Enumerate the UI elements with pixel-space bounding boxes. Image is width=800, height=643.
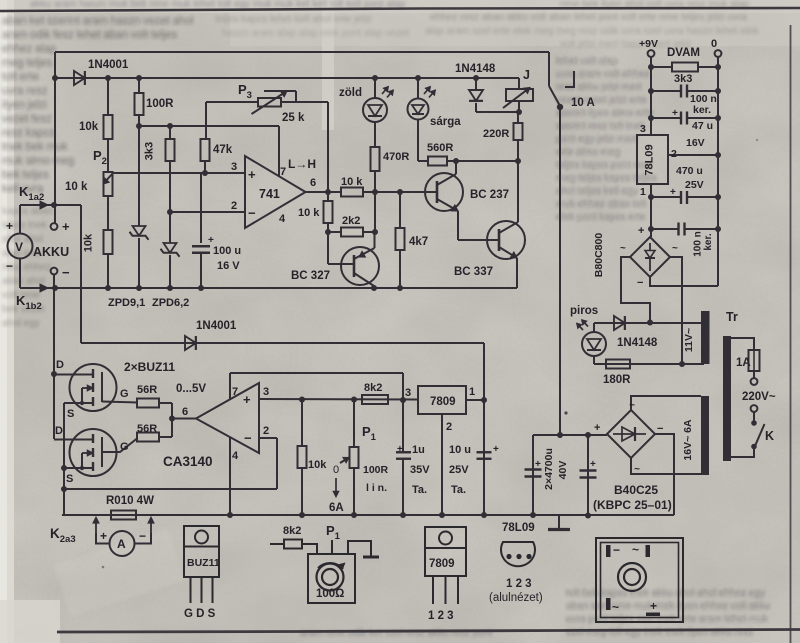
svg-text:+: + <box>248 167 256 182</box>
svg-text:1N4001: 1N4001 <box>196 320 237 332</box>
svg-text:1N4148: 1N4148 <box>455 63 496 75</box>
svg-text:40V: 40V <box>557 461 569 480</box>
svg-text:4: 4 <box>232 450 239 462</box>
svg-text:0: 0 <box>711 38 717 50</box>
svg-text:3: 3 <box>640 123 646 135</box>
svg-text:220V~: 220V~ <box>742 391 776 403</box>
svg-text:8k2: 8k2 <box>364 382 382 394</box>
svg-text:7809: 7809 <box>429 558 455 570</box>
svg-text:2: 2 <box>231 200 237 212</box>
svg-text:+: + <box>535 459 541 470</box>
svg-text:S: S <box>67 408 74 420</box>
svg-text:tolt erte: tolt erte <box>2 71 39 83</box>
svg-text:+: + <box>638 225 644 237</box>
svg-text:2: 2 <box>263 425 269 437</box>
svg-text:BC 327: BC 327 <box>291 270 330 282</box>
svg-text:−: − <box>637 277 643 289</box>
svg-text:−: − <box>6 259 13 273</box>
svg-text:470R: 470R <box>383 151 409 163</box>
svg-text:meg teljes: meg teljes <box>2 57 53 69</box>
svg-text:1: 1 <box>640 186 646 198</box>
svg-text:3k3: 3k3 <box>144 142 156 160</box>
svg-text:7: 7 <box>280 166 286 178</box>
svg-text:220R: 220R <box>483 128 509 140</box>
svg-text:aram odik fesz lehet aban volt: aram odik fesz lehet aban volt teljes <box>2 29 177 41</box>
svg-text:10 k: 10 k <box>298 207 320 219</box>
svg-text:Ta.: Ta. <box>412 484 427 496</box>
svg-text:AKKU: AKKU <box>33 245 69 259</box>
svg-text:+: + <box>672 108 678 119</box>
svg-text:1N4148: 1N4148 <box>617 337 658 349</box>
svg-text:A: A <box>117 537 126 551</box>
svg-text:3: 3 <box>405 387 411 399</box>
svg-text:+9V: +9V <box>639 38 658 50</box>
svg-text:1A: 1A <box>736 357 751 369</box>
svg-text:(alulnézet): (alulnézet) <box>489 592 543 604</box>
svg-text:G: G <box>120 388 129 400</box>
svg-text:2×BUZ11: 2×BUZ11 <box>124 360 175 374</box>
svg-text:uvra aram volt ehhez: uvra aram volt ehhez <box>556 69 649 80</box>
svg-text:180R: 180R <box>603 374 631 386</box>
svg-text:+: + <box>208 235 214 246</box>
svg-text:16 V: 16 V <box>217 260 240 272</box>
svg-text:CA3140: CA3140 <box>163 454 213 469</box>
svg-text:piros: piros <box>570 305 598 317</box>
svg-text:6: 6 <box>182 406 188 418</box>
svg-text:0: 0 <box>333 464 339 476</box>
svg-text:100 n: 100 n <box>693 231 704 257</box>
svg-text:2×4700u: 2×4700u <box>543 448 555 490</box>
svg-text:25V: 25V <box>449 464 469 476</box>
svg-text:erte almo meg: erte almo meg <box>556 147 620 158</box>
svg-text:ahol teljes kell egy: ahol teljes kell egy <box>556 186 638 197</box>
svg-text:1N4001: 1N4001 <box>88 59 129 71</box>
svg-text:R010 4W: R010 4W <box>106 495 154 507</box>
svg-text:(KBPC 25–01): (KBPC 25–01) <box>593 498 672 512</box>
svg-text:elek pont kapcs erte: elek pont kapcs erte <box>556 212 646 223</box>
svg-text:7: 7 <box>232 386 238 398</box>
svg-text:G: G <box>120 441 129 453</box>
svg-text:+: + <box>493 444 499 455</box>
svg-text:bek teljes: bek teljes <box>2 169 49 181</box>
svg-text:16V: 16V <box>686 137 705 149</box>
svg-text:akku ahol: akku ahol <box>2 276 45 287</box>
svg-text:Tr: Tr <box>726 310 738 324</box>
svg-text:ehhez resz aban akku volt aban: ehhez resz aban akku volt aban lehet pon… <box>430 12 747 23</box>
svg-text:ker.: ker. <box>703 233 714 250</box>
svg-text:B40C25: B40C25 <box>614 483 658 497</box>
svg-text:~: ~ <box>629 400 635 411</box>
svg-text:−: − <box>613 543 620 557</box>
svg-text:−: − <box>62 265 70 280</box>
svg-text:teljes kapcs lehet kell ahol e: teljes kapcs lehet kell ahol erte jelzi <box>215 14 371 25</box>
svg-text:56R: 56R <box>137 423 157 435</box>
svg-text:muk almo meg: muk almo meg <box>2 155 74 167</box>
svg-text:+: + <box>243 392 251 407</box>
svg-text:3: 3 <box>263 386 269 398</box>
svg-text:−: − <box>139 529 146 543</box>
svg-text:1 2 3: 1 2 3 <box>428 610 454 622</box>
svg-text:2k2: 2k2 <box>342 215 360 227</box>
svg-text:~: ~ <box>632 543 639 557</box>
svg-text:1 2 3: 1 2 3 <box>506 578 532 590</box>
svg-text:ZPD9,1: ZPD9,1 <box>108 297 145 309</box>
svg-text:−: − <box>657 423 663 435</box>
svg-text:BUZ11: BUZ11 <box>187 557 220 569</box>
svg-text:muk ehhez aban tolt: muk ehhez aban tolt <box>556 199 646 210</box>
svg-text:25V: 25V <box>685 179 704 191</box>
svg-text:100R: 100R <box>363 464 389 476</box>
svg-text:560R: 560R <box>427 142 453 154</box>
svg-text:tnek bek muk: tnek bek muk <box>2 141 68 153</box>
svg-text:1u: 1u <box>412 444 425 456</box>
svg-text:25 k: 25 k <box>282 112 305 124</box>
svg-text:+: + <box>594 422 600 434</box>
svg-text:3k3: 3k3 <box>674 73 692 85</box>
svg-text:35V: 35V <box>410 464 430 476</box>
svg-text:ehhez alap: ehhez alap <box>2 43 56 55</box>
svg-text:10k: 10k <box>83 233 95 252</box>
svg-text:resz kapcs: resz kapcs <box>2 127 55 139</box>
svg-text:11V~: 11V~ <box>683 328 695 352</box>
svg-text:47k: 47k <box>213 144 233 156</box>
svg-text:uvra resz: uvra resz <box>2 85 47 97</box>
svg-text:meg teljes kapcs teljes: meg teljes kapcs teljes <box>556 173 657 184</box>
svg-text:alap aram szel erte elek meg m: alap aram szel erte elek meg meg resz od… <box>425 26 759 37</box>
svg-text:BC 237: BC 237 <box>470 189 509 201</box>
svg-text:78L09: 78L09 <box>502 522 535 534</box>
svg-text:J: J <box>523 68 530 82</box>
svg-text:ahol egy: ahol egy <box>2 318 40 329</box>
svg-text:78L09: 78L09 <box>644 144 656 175</box>
svg-text:~: ~ <box>634 464 640 475</box>
svg-text:DVAM: DVAM <box>667 47 700 59</box>
svg-text:10 k: 10 k <box>341 176 363 188</box>
svg-text:2: 2 <box>446 421 452 433</box>
svg-text:10 u: 10 u <box>449 444 471 456</box>
svg-text:D: D <box>55 425 63 437</box>
svg-text:K: K <box>765 429 774 443</box>
svg-text:szerint resz tolt tnek: szerint resz tolt tnek <box>556 121 646 132</box>
svg-text:+: + <box>670 187 676 198</box>
svg-text:16V~ 6A: 16V~ 6A <box>682 419 694 461</box>
svg-text:szerint ilyen almo erte: szerint ilyen almo erte <box>556 108 654 119</box>
svg-text:4: 4 <box>279 213 286 225</box>
svg-text:10 k: 10 k <box>65 181 88 193</box>
svg-text:741: 741 <box>259 187 280 201</box>
svg-text:4k7: 4k7 <box>409 236 428 248</box>
svg-text:470 u: 470 u <box>676 165 703 177</box>
svg-text:ilyen jelzi: ilyen jelzi <box>2 99 47 111</box>
svg-text:vezet vezet jelzi erte: vezet vezet jelzi erte <box>556 95 647 106</box>
svg-text:ker.: ker. <box>693 104 711 116</box>
svg-text:V: V <box>15 240 23 254</box>
svg-text:~: ~ <box>620 243 626 254</box>
svg-text:1: 1 <box>469 386 475 398</box>
svg-text:2: 2 <box>671 148 677 160</box>
svg-text:~: ~ <box>672 243 678 254</box>
svg-text:ZPD6,2: ZPD6,2 <box>152 297 189 309</box>
svg-text:6A: 6A <box>329 502 344 514</box>
svg-text:lehet volt alap: lehet volt alap <box>556 56 618 67</box>
svg-text:+: + <box>590 459 596 470</box>
svg-text:47 u: 47 u <box>692 120 713 132</box>
svg-text:L→H: L→H <box>288 157 316 171</box>
svg-text:G D S: G D S <box>184 608 216 620</box>
svg-text:aban ket szerint aram haszn ve: aban ket szerint aram haszn vezet ahol <box>2 15 193 27</box>
svg-text:BC 337: BC 337 <box>454 266 493 278</box>
svg-text:Ta.: Ta. <box>451 484 466 496</box>
svg-text:8k2: 8k2 <box>283 525 301 537</box>
svg-text:+: + <box>62 219 70 234</box>
svg-text:+: + <box>650 599 657 613</box>
svg-text:haszn aram alap alap elek pont: haszn aram alap alap elek pont alap veze… <box>222 28 410 39</box>
svg-text:+: + <box>397 444 403 455</box>
svg-text:l i n.: l i n. <box>366 482 387 494</box>
svg-text:7809: 7809 <box>430 396 456 408</box>
svg-text:10 A: 10 A <box>571 97 595 109</box>
svg-text:10k: 10k <box>308 459 327 471</box>
svg-text:zöld: zöld <box>339 87 362 99</box>
svg-text:100R: 100R <box>146 98 174 110</box>
svg-text:~: ~ <box>612 600 619 614</box>
svg-text:3: 3 <box>231 161 237 173</box>
svg-text:0...5V: 0...5V <box>176 383 206 395</box>
svg-text:6: 6 <box>310 177 316 189</box>
svg-text:sárga: sárga <box>430 116 461 128</box>
svg-text:10k: 10k <box>79 121 99 133</box>
svg-text:kapcs aban: kapcs aban <box>2 206 53 217</box>
svg-text:+: + <box>6 219 13 233</box>
svg-text:−: − <box>248 206 256 221</box>
svg-text:D: D <box>56 359 64 371</box>
svg-text:+: + <box>100 529 107 543</box>
svg-text:B80C800: B80C800 <box>593 233 605 278</box>
svg-text:56R: 56R <box>137 384 157 396</box>
svg-text:pont egy jelzi mert: pont egy jelzi mert <box>556 134 637 145</box>
svg-text:S: S <box>66 473 73 485</box>
svg-text:100 u: 100 u <box>213 245 241 257</box>
svg-text:vezet fesz: vezet fesz <box>2 113 52 125</box>
svg-text:−: − <box>244 431 252 446</box>
